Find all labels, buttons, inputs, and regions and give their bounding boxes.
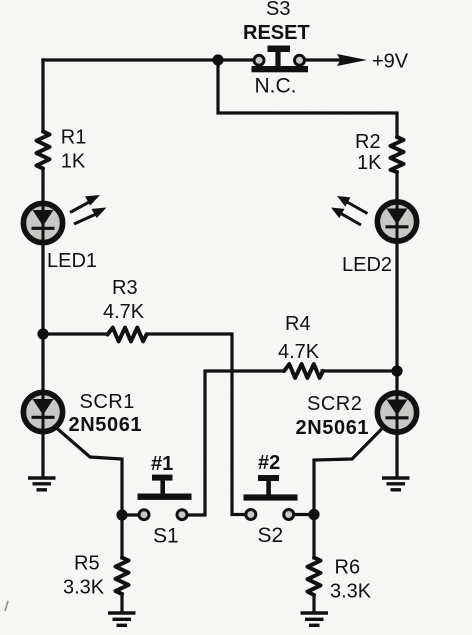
ground SCR1 — [28, 478, 56, 490]
pushbutton S1 — [138, 475, 192, 520]
svg-text:SCR1: SCR1 — [80, 391, 135, 413]
resistor R4 — [284, 364, 323, 378]
wire R5 to ground — [120, 594, 123, 611]
svg-text:1K: 1K — [61, 151, 86, 173]
wire LED1 to R3 junction — [41, 244, 44, 334]
svg-text:4.7K: 4.7K — [103, 301, 145, 323]
wire R2 to LED2 — [395, 172, 398, 202]
LED LED1 — [23, 202, 62, 244]
junction node S2/gate/R6 — [308, 509, 319, 520]
wire junction to S3 left terminal — [218, 58, 253, 61]
wire SCR1 cathode to ground — [41, 433, 44, 477]
resistor R5 — [116, 558, 129, 595]
LED2 light arrow 1 — [337, 196, 368, 214]
wire SCR1 gate to S1 junction — [45, 418, 122, 515]
wire R3 right lead down to S2 — [147, 334, 245, 515]
svg-text:N.C.: N.C. — [255, 75, 297, 98]
svg-text:RESET: RESET — [243, 22, 310, 44]
wire S3 right terminal to +9V arrow — [304, 58, 348, 61]
svg-text:R1: R1 — [61, 127, 87, 149]
svg-text:3.3K: 3.3K — [63, 577, 105, 599]
wire S1 junction to R5 — [120, 515, 123, 558]
resistor R2 — [391, 137, 404, 172]
ground R5 — [108, 613, 136, 625]
ground SCR2 — [382, 478, 410, 490]
svg-text:R6: R6 — [335, 557, 361, 579]
LED1 light arrow 1 — [70, 195, 100, 213]
wire R3 junction to SCR1 — [41, 334, 44, 392]
wire drop from top junction to right rail — [218, 60, 397, 137]
wire S2 junction to R6 — [312, 514, 315, 558]
svg-text:R3: R3 — [112, 277, 138, 299]
SCR SCR2 — [377, 391, 416, 433]
resistor R6 — [308, 558, 321, 596]
wire SCR2 gate to S2 junction — [314, 418, 393, 515]
pushbutton S2 — [244, 475, 298, 520]
pushbutton S3 (N.C. reset) — [252, 46, 309, 73]
svg-text:SCR2: SCR2 — [307, 393, 362, 415]
wire LED2 to R4 junction — [395, 243, 398, 371]
svg-text:#1: #1 — [151, 453, 173, 475]
wire R4 right lead — [322, 369, 397, 372]
wire top horizontal left — [43, 58, 218, 61]
svg-text:1K: 1K — [357, 152, 382, 174]
resistor R1 — [37, 132, 50, 169]
svg-text:R4: R4 — [285, 313, 311, 335]
SCR SCR1 — [23, 391, 62, 433]
wire R6 to ground — [312, 595, 315, 611]
junction node R4/right rail — [391, 365, 402, 376]
junction node LED1/R3 — [37, 328, 48, 339]
svg-text:S1: S1 — [153, 525, 179, 548]
wire S1 junction to left terminal — [122, 513, 140, 516]
svg-text:4.7K: 4.7K — [278, 341, 320, 363]
svg-text:2N5061: 2N5061 — [296, 417, 370, 439]
wire R4 left lead down to S1 right terminal — [189, 371, 284, 515]
svg-text:2N5061: 2N5061 — [69, 414, 143, 436]
junction node top (S3/left rail) — [212, 54, 223, 65]
svg-text:R5: R5 — [74, 553, 100, 575]
wire R3 left lead — [43, 332, 107, 335]
wire R4 junction to SCR2 — [395, 371, 398, 392]
svg-text:S3: S3 — [266, 0, 290, 20]
svg-text:#2: #2 — [258, 452, 280, 474]
wire S2 right terminal to junction — [295, 513, 314, 516]
svg-text:3.3K: 3.3K — [330, 581, 372, 603]
ground R6 — [301, 613, 329, 625]
svg-text:R2: R2 — [355, 131, 381, 153]
stray scan mark bottom left — [5, 601, 8, 611]
svg-text:LED1: LED1 — [47, 250, 97, 272]
LED1 light arrow 2 — [74, 208, 107, 225]
wire left rail top — [41, 60, 44, 131]
wire R1 to LED1 — [41, 169, 44, 203]
LED LED2 — [377, 200, 416, 242]
svg-text:LED2: LED2 — [342, 254, 392, 276]
LED2 light arrow 2 — [331, 208, 361, 226]
junction node S1/gate/R5 — [116, 509, 127, 520]
svg-text:S2: S2 — [258, 524, 284, 547]
+9V supply arrow — [304, 54, 367, 66]
wire SCR2 cathode to ground — [395, 433, 398, 477]
svg-text:+9V: +9V — [372, 51, 409, 73]
resistor R3 — [108, 328, 147, 342]
